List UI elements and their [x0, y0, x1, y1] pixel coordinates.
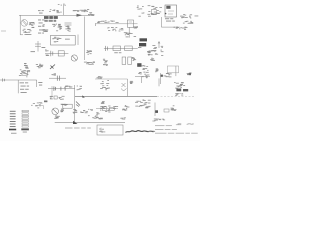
wire left edge stub [1, 30, 6, 32]
capacitor C6 ticks [54, 86, 65, 91]
wire V7 long [74, 85, 76, 123]
label Q2 right [86, 50, 92, 54]
label around L2 [19, 69, 30, 77]
label corner note [176, 123, 194, 125]
label right specks [187, 73, 192, 76]
IC U1 [165, 5, 177, 17]
label right of R6 [80, 109, 93, 113]
wire V12 [154, 103, 156, 117]
title block logo [99, 129, 105, 133]
resistor R5 [125, 46, 133, 51]
label U2 inside [52, 37, 61, 42]
transistor Q1 [21, 20, 28, 27]
label far right edge [195, 15, 199, 18]
box SW1 [167, 66, 178, 73]
label right of Q3 [60, 109, 64, 113]
wire main bus [75, 95, 157, 97]
wire V5 [77, 35, 79, 46]
relay K1 [128, 20, 134, 27]
junction arrow bus [73, 121, 78, 124]
label top strip nets [49, 9, 86, 12]
wire top bus [19, 14, 90, 16]
label right pins b [183, 21, 193, 24]
capacitor tick on bus [106, 46, 108, 51]
wire node B row [45, 53, 68, 55]
label A1 [38, 9, 44, 12]
node dot right [161, 75, 163, 77]
title block frame [97, 125, 123, 135]
transistor Q2 [71, 55, 77, 61]
label right col rows [38, 19, 45, 22]
label under Q3 [54, 116, 60, 119]
diode D2 [121, 83, 127, 91]
label near bus start [77, 86, 82, 91]
label note row bottom [65, 127, 91, 130]
tick net A left [95, 23, 97, 26]
label left of SW1 [155, 68, 158, 72]
label near C3 [142, 65, 149, 71]
label above C6 [52, 73, 57, 75]
label inside box [100, 80, 110, 90]
label under ladder a [11, 132, 17, 135]
ground arrow left [50, 65, 55, 70]
label R6 right marks [73, 109, 78, 113]
label row under [61, 104, 68, 106]
wire K1 coil drop [128, 27, 130, 37]
capacitor ticks on left bus [3, 78, 5, 81]
label right pins a [180, 14, 192, 18]
resistor R2 label [52, 24, 62, 31]
text block row3 [122, 105, 129, 111]
resistor R8 [102, 107, 107, 111]
connector J1 dense label [44, 16, 58, 22]
corner tick mark [38, 106, 44, 109]
label rows left [20, 81, 29, 84]
wire left low bus [0, 79, 37, 81]
label K4 [101, 101, 105, 104]
resistor R4 [113, 46, 121, 51]
label above title [97, 117, 103, 119]
title row small [149, 130, 156, 133]
title text row B [155, 128, 177, 131]
wire cap row [48, 87, 75, 89]
label top of V2 [58, 4, 66, 6]
resistor R6 [63, 104, 72, 108]
wire V14 [17, 80, 19, 93]
wire Q3 feed [51, 86, 53, 96]
label under Q1 [23, 29, 32, 35]
resistor R9 [110, 107, 115, 110]
wire V13 [36, 80, 38, 87]
capacitor C1 [65, 23, 72, 28]
label RV1 [135, 101, 145, 107]
label U4 cluster [174, 82, 185, 89]
label above cap row [64, 86, 72, 88]
wire comp row low [96, 108, 118, 110]
label C2 [31, 50, 36, 53]
inductor L2 box [22, 71, 28, 75]
IC U2 [51, 35, 76, 45]
wire U1 L-net [161, 17, 179, 27]
label I3 [38, 81, 42, 84]
label above J1 [56, 10, 61, 13]
label left col under J1 [42, 24, 48, 32]
wire V10 [37, 41, 39, 52]
component near D3 [164, 109, 169, 112]
label near small box [50, 96, 53, 99]
arrow net F [158, 42, 160, 49]
label under ladder b [23, 131, 27, 134]
wire bus faint tail [157, 95, 195, 97]
wire input stub V1 [20, 15, 23, 35]
wire box net H [95, 78, 128, 80]
ground hatch [76, 102, 80, 107]
label under tick [103, 59, 108, 66]
label U1 below [165, 17, 173, 20]
wire net A mid [96, 23, 138, 25]
label node D texts [24, 63, 29, 69]
title text row A [155, 124, 172, 127]
label K1 vals [124, 32, 136, 37]
capacitor C4 [122, 57, 131, 64]
label under D3 [152, 119, 165, 122]
label above box net [96, 76, 102, 79]
label G6 [147, 51, 151, 56]
label under R4 [114, 51, 121, 54]
capacitor ticks node B [51, 51, 53, 56]
title signature squiggle [126, 131, 155, 133]
diode D3 dot [155, 110, 158, 113]
label above ladder [31, 102, 42, 108]
wire V9 right [160, 73, 162, 84]
wire V8 drop [135, 77, 150, 84]
label below net A [107, 27, 123, 31]
label right of bus [81, 9, 94, 16]
label under BZ1 [175, 93, 183, 96]
label TP cluster [150, 45, 163, 56]
label right of C4 [132, 57, 136, 61]
text block row1 [100, 106, 111, 113]
capacitor C5 dark [137, 63, 141, 67]
label U3 scatter [137, 5, 162, 16]
label cluster L1 [164, 73, 172, 77]
label above net A [97, 21, 119, 24]
label under L-net [173, 27, 187, 30]
capacitor C6 row [49, 76, 66, 81]
resistor R3 [58, 51, 64, 56]
label right of D3 [171, 105, 177, 111]
junction blob [82, 95, 85, 97]
label left of node B [45, 49, 49, 56]
label comp right [130, 81, 134, 84]
label end of bus [138, 46, 141, 49]
label P2 cluster [143, 100, 151, 109]
wire mid bus G [104, 47, 138, 49]
label below comp row [96, 112, 99, 114]
wire V4 [83, 17, 85, 61]
transistor Q3 [52, 108, 59, 115]
label dark tick [44, 101, 47, 103]
diode D1 arrow [77, 14, 83, 17]
label K1 row end [133, 26, 138, 28]
polarized capacitor C3 [139, 38, 147, 46]
connector P1 pin name column [9, 111, 16, 131]
label Q1 side [29, 22, 35, 28]
crystal Y1 [151, 10, 156, 15]
wire x159 seg [158, 78, 160, 86]
label K3 cluster [138, 72, 149, 79]
wire V6 [127, 79, 129, 96]
label row F6 [84, 62, 95, 65]
wire bottom bus [55, 122, 125, 124]
wire V2 to top bus [63, 4, 65, 16]
connector P1 pad column [21, 110, 29, 130]
wire SW1 drop [175, 66, 177, 76]
title text row C [155, 132, 198, 135]
label H2c [150, 58, 155, 61]
text block row2 [113, 106, 118, 109]
capacitor C2 [35, 44, 41, 46]
component box small [54, 96, 57, 99]
buzzer BZ1 dark row [176, 89, 188, 92]
